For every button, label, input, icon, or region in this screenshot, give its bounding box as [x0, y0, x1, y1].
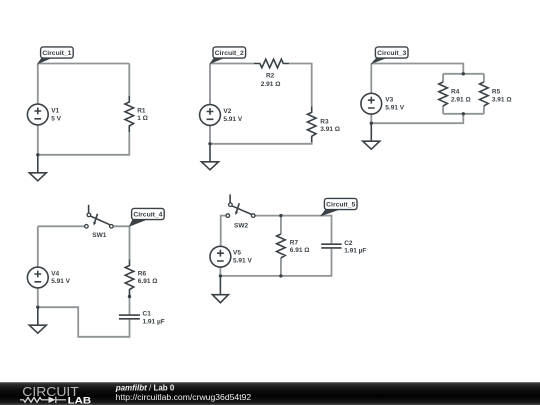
capacitor C2	[321, 240, 366, 255]
svg-text:R7: R7	[290, 239, 299, 246]
svg-text:C1: C1	[143, 311, 152, 318]
svg-text:2.91 Ω: 2.91 Ω	[451, 96, 471, 103]
node junction bottom-left C5	[219, 274, 222, 277]
wire bottom C3	[371, 114, 463, 123]
svg-text:http://circuitlab.com/crwug36d: http://circuitlab.com/crwug36d54t92	[116, 392, 252, 402]
wire left-bottom C3	[370, 114, 372, 123]
wire left-bottom C4	[37, 288, 39, 307]
svg-text:5.91 V: 5.91 V	[51, 278, 70, 285]
wire left-top C1	[37, 64, 39, 105]
node junction bottom-mid C5	[279, 274, 282, 277]
switch SW1	[85, 205, 114, 239]
ground C3	[363, 123, 380, 149]
wire top C1	[38, 63, 130, 65]
logo LAB text	[68, 395, 92, 405]
logo CIRCUIT text	[22, 384, 79, 399]
svg-text:3.91 Ω: 3.91 Ω	[320, 126, 340, 133]
node junction C1	[36, 153, 39, 156]
voltage source V1	[27, 104, 61, 125]
node junction C2	[208, 142, 211, 145]
svg-text:V4: V4	[51, 271, 59, 278]
wire left-bottom C2	[209, 125, 211, 144]
wire C2 bottom lead	[220, 249, 331, 276]
svg-text:R2: R2	[266, 73, 275, 80]
resistor R2	[254, 59, 289, 88]
svg-text:Circuit_5: Circuit_5	[326, 202, 355, 209]
wire return C4	[38, 307, 130, 337]
svg-text:SW1: SW1	[92, 232, 106, 239]
node junction bottom C3	[462, 112, 465, 115]
ground C4	[29, 307, 46, 333]
resistor R5	[480, 82, 512, 106]
wire left-bottom C1	[37, 125, 39, 155]
svg-text:Circuit_3: Circuit_3	[377, 50, 406, 57]
wire top C3	[371, 64, 463, 74]
wire left-bottom C5	[219, 267, 221, 276]
svg-text:V5: V5	[233, 250, 241, 257]
svg-text:6.91 Ω: 6.91 Ω	[138, 278, 158, 285]
wire top-right C5	[255, 216, 332, 244]
svg-text:5.91 V: 5.91 V	[233, 257, 252, 264]
voltage source V2	[200, 105, 243, 126]
wire top-left C5	[221, 216, 226, 247]
footer title text	[115, 383, 175, 392]
svg-text:R4: R4	[451, 89, 460, 96]
label Circuit_1	[37, 47, 73, 65]
svg-text:Circuit_4: Circuit_4	[133, 212, 162, 219]
svg-text:SW2: SW2	[234, 222, 248, 229]
wire parallel top bar C3	[443, 73, 484, 75]
svg-text:R1: R1	[137, 107, 146, 114]
wire bottom C2	[210, 142, 312, 144]
wire left-top C3	[370, 64, 372, 94]
svg-text:R6: R6	[138, 270, 147, 277]
svg-text:Circuit_2: Circuit_2	[215, 50, 244, 57]
svg-text:V2: V2	[223, 108, 231, 115]
label Circuit_5	[320, 198, 357, 216]
svg-text:5.91 V: 5.91 V	[385, 104, 404, 111]
wire left-top C2	[209, 64, 211, 105]
voltage source V3	[361, 93, 405, 114]
wire right C1	[128, 64, 130, 97]
svg-text:1.91 µF: 1.91 µF	[344, 248, 366, 255]
wire top-right C4	[113, 226, 129, 259]
wire R7 bottom lead	[280, 258, 282, 276]
label Circuit_4	[129, 208, 165, 227]
node junction left C3	[370, 122, 373, 125]
svg-text:LAB: LAB	[68, 395, 92, 405]
wire R4 leads	[442, 74, 444, 114]
wire bottom C1	[38, 132, 130, 155]
wire R5 leads	[483, 74, 485, 114]
svg-text:Circuit_1: Circuit_1	[42, 50, 71, 57]
svg-text:6.91 Ω: 6.91 Ω	[290, 247, 310, 254]
svg-text:1 Ω: 1 Ω	[137, 115, 148, 122]
voltage source V4	[27, 267, 70, 288]
node junction C4	[36, 306, 39, 309]
resistor R1	[125, 96, 148, 132]
footer url text	[116, 392, 252, 402]
svg-text:pamfilbt / Lab 0: pamfilbt / Lab 0	[115, 383, 175, 392]
resistor R3	[307, 106, 340, 142]
svg-text:V1: V1	[51, 108, 59, 115]
node junction R6-C1	[128, 295, 131, 298]
svg-text:V3: V3	[385, 97, 393, 104]
voltage source V5	[210, 246, 252, 267]
ground C1	[29, 155, 46, 181]
wire top-left C2	[210, 63, 254, 65]
wire top-left C4	[38, 225, 85, 227]
capacitor C1	[119, 311, 165, 326]
resistor R7	[277, 234, 310, 258]
resistor R4	[439, 82, 471, 106]
label Circuit_3	[371, 47, 409, 64]
wire top-right C2	[289, 64, 312, 107]
label Circuit_2	[209, 47, 245, 64]
svg-text:3.91 Ω: 3.91 Ω	[492, 96, 512, 103]
wire left-top C4	[37, 226, 39, 267]
ground C5	[212, 276, 228, 303]
resistor R6	[125, 260, 157, 296]
svg-text:R5: R5	[492, 89, 501, 96]
svg-text:5 V: 5 V	[51, 115, 61, 122]
svg-text:R3: R3	[320, 119, 329, 126]
wire parallel bottom bar C3	[443, 113, 484, 115]
ground C2	[202, 144, 219, 170]
logo resistor-diode line	[20, 397, 66, 403]
wire R6 to C1 cap	[129, 296, 131, 315]
svg-text:1.91 µF: 1.91 µF	[143, 318, 165, 325]
node junction top C3	[462, 72, 465, 75]
svg-text:C2: C2	[344, 240, 353, 247]
node junction top C5	[279, 214, 282, 217]
svg-text:2.91 Ω: 2.91 Ω	[261, 81, 281, 88]
wire R7 top lead	[280, 216, 282, 234]
switch SW2	[226, 194, 255, 229]
svg-text:5.91 V: 5.91 V	[223, 116, 242, 123]
